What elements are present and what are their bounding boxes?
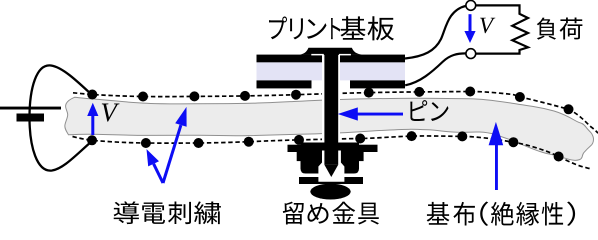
- pin shaft: [324, 48, 338, 165]
- blue arrow base fabric (up): [489, 122, 504, 190]
- blue arrow V left (up): [87, 103, 98, 135]
- battery short plate: [17, 114, 45, 122]
- label base-fabric text 基布（絶縁性）: [427, 202, 575, 226]
- white notch under cap left: [311, 54, 324, 56]
- blue arrow pin (left): [338, 107, 403, 120]
- label load text 負荷: [537, 17, 583, 39]
- label voltage label V (left): [102, 104, 120, 122]
- load circuit: top lead, resistor zigzag, bottom lead: [476, 5, 528, 53]
- blue arrow V right (down): [464, 14, 475, 43]
- terminal bottom: [466, 49, 476, 59]
- battery long plate: [0, 107, 61, 110]
- conductive embroidery stitch dots, top row: [87, 87, 573, 115]
- label voltage label V (right): [480, 18, 495, 34]
- PCB bottom copper bar right: [350, 80, 405, 88]
- label printed-circuit-board text プリント基板: [269, 16, 394, 40]
- pin tip: [324, 165, 338, 177]
- fastener white gap strip: [296, 174, 364, 178]
- label pin text ピン: [410, 100, 448, 121]
- white notch under cap right: [339, 54, 351, 56]
- base fabric band (insulating substrate): [65, 97, 594, 160]
- bottom stitch dashed line: [73, 136, 591, 169]
- fastener right post: [356, 152, 364, 162]
- PCB bottom copper bar left: [257, 80, 312, 88]
- fastener flange bar: [288, 145, 378, 152]
- top stitch dashed line: [73, 92, 598, 134]
- wire PCB to load, bottom: [405, 53, 466, 85]
- PCB substrate (lavender): [257, 62, 406, 80]
- fastener body: [301, 143, 360, 174]
- pin white rim: [322, 55, 340, 143]
- label conductive-embroidery text 導電刺繍: [114, 201, 221, 224]
- fastener lower bar: [299, 177, 363, 184]
- pin cap: [300, 48, 363, 55]
- conductive embroidery stitch dots, bottom row: [87, 131, 564, 161]
- PCB top copper bar: [257, 55, 406, 63]
- label fastener text 留め金具: [283, 202, 379, 225]
- blue arrows conductive embroidery (forked): [147, 107, 187, 183]
- wire PCB to load, top: [405, 6, 466, 59]
- fastener white slot: [318, 151, 344, 182]
- fastener bottom ellipse: [310, 184, 350, 200]
- battery wire loop: [30, 65, 93, 170]
- terminal top: [466, 1, 476, 11]
- fastener left post: [297, 152, 305, 162]
